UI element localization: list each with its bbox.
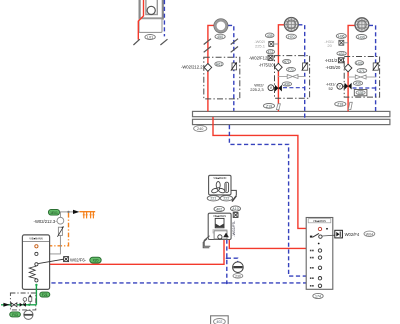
svg-text:402: 402 (216, 208, 222, 212)
svg-text:-H31/2: -H31/2 (325, 58, 338, 63)
svg-text:H61: H61 (216, 62, 222, 66)
svg-text:L01: L01 (147, 35, 153, 39)
svg-text:471: 471 (359, 69, 365, 73)
svg-text:435: 435 (358, 91, 364, 95)
svg-text:52: 52 (329, 86, 334, 91)
svg-text:1E01: 1E01 (50, 211, 58, 215)
svg-text:450: 450 (217, 35, 223, 39)
svg-text:222: 222 (223, 197, 229, 201)
svg-text:225.1: 225.1 (255, 43, 266, 48)
svg-text:-W02/F12: -W02/F12 (249, 55, 268, 60)
svg-text:H70: H70 (288, 35, 294, 39)
svg-text:439: 439 (355, 82, 361, 86)
svg-text:-W02/F5-: -W02/F5- (232, 220, 236, 237)
svg-text:H30: H30 (358, 35, 364, 39)
svg-text:174: 174 (315, 295, 321, 299)
svg-text:H71: H71 (284, 60, 290, 64)
svg-text:A10: A10 (232, 207, 238, 211)
svg-text:-W02/212.2: -W02/212.2 (181, 64, 203, 69)
svg-text:402: 402 (216, 320, 222, 324)
svg-text:430: 430 (284, 82, 290, 86)
svg-text:X20: X20 (93, 259, 99, 263)
svg-text:F03: F03 (12, 313, 18, 317)
svg-text:240: 240 (197, 127, 203, 131)
svg-text:221: 221 (210, 197, 216, 201)
svg-text:432: 432 (339, 52, 345, 56)
svg-text:-H75/20: -H75/20 (259, 63, 275, 68)
svg-text:-H35/20: -H35/20 (325, 65, 341, 70)
svg-text:VIE■MANN: VIE■MANN (213, 215, 226, 218)
svg-text:472: 472 (268, 50, 274, 54)
svg-text:W04: W04 (366, 232, 373, 236)
svg-text:VIE■MANN: VIE■MANN (213, 177, 226, 180)
svg-text:Z18: Z18 (337, 102, 343, 106)
svg-text:230: 230 (235, 274, 241, 278)
svg-text:-W02/212.3-: -W02/212.3- (34, 219, 58, 224)
svg-text:225.2,3: 225.2,3 (250, 87, 264, 92)
svg-text:Z19: Z19 (266, 104, 272, 108)
svg-text:H33: H33 (356, 61, 362, 65)
svg-text:W02/F6-: W02/F6- (70, 257, 87, 262)
svg-text:W02/F4: W02/F4 (345, 232, 360, 237)
svg-text:435: 435 (267, 34, 273, 38)
svg-text:20: 20 (327, 43, 332, 48)
svg-text:F21: F21 (42, 293, 48, 297)
svg-text:F71: F71 (288, 68, 294, 72)
svg-text:VIE■MANN: VIE■MANN (313, 220, 326, 223)
svg-text:H36: H36 (338, 34, 344, 38)
svg-text:VIE■MANN: VIE■MANN (29, 237, 43, 241)
